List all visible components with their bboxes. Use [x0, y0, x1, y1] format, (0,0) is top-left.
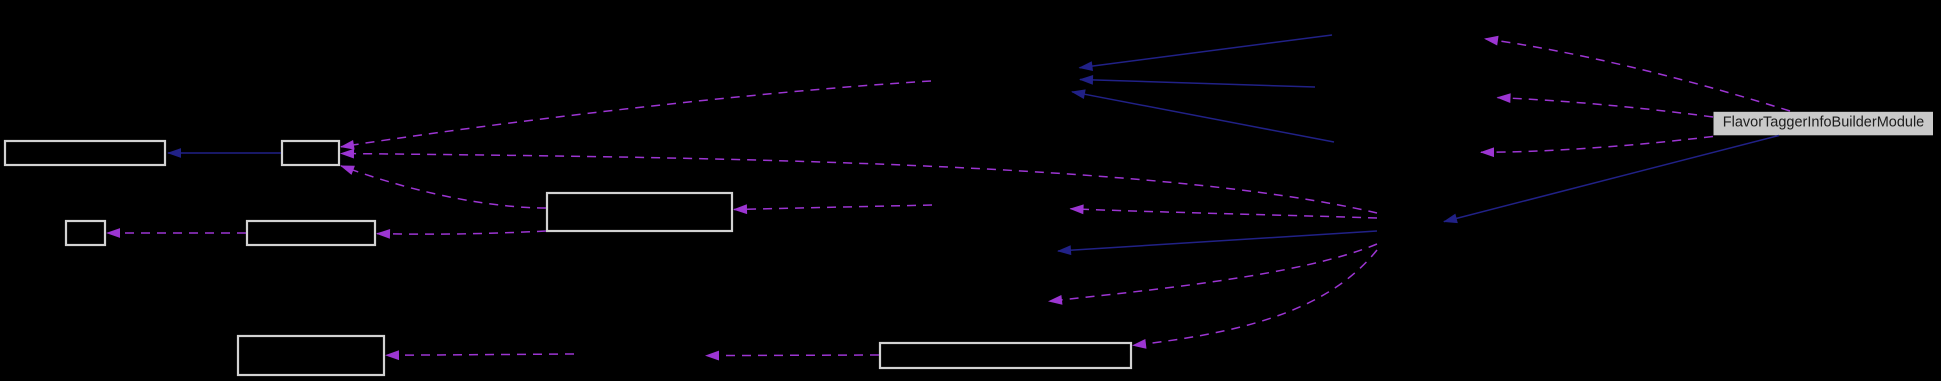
node box B (small box)	[282, 141, 339, 165]
edge C->B (dashed purple usage arrow)	[341, 166, 546, 208]
svg-text:FlavorTaggerInfoBuilderModule: FlavorTaggerInfoBuilderModule	[1723, 115, 1925, 131]
edge M->N4 (dashed purple usage arrow to invisible node)	[1049, 244, 1377, 301]
edge X1->B (dashed purple usage arrow)	[341, 81, 931, 147]
edge B->A (solid blue inheritance arrow)	[168, 152, 281, 154]
edge H->R3 (dashed purple usage arrow to invisible node)	[1481, 137, 1713, 153]
node box E	[247, 221, 375, 245]
edge M->G (dashed purple usage arrow)	[1133, 250, 1377, 345]
edge R2->X1 (solid blue inheritance arrow)	[1080, 80, 1315, 88]
edge M->N2 (dashed purple usage arrow between invisible nodes)	[1071, 209, 1378, 218]
node box G (bottom-middle wide box)	[880, 343, 1131, 368]
node box A (top-left wide box)	[5, 141, 165, 165]
edge E->D (dashed purple usage arrow)	[107, 232, 246, 234]
node FlavorTaggerInfoBuilderModule (highlighted, grey)	[1714, 112, 1934, 136]
edge H->R1 (dashed purple usage arrow to invisible node)	[1485, 39, 1790, 111]
edge N2->C (dashed purple usage arrow from invisible node)	[734, 205, 932, 210]
edge R1->X1 (solid blue inheritance arrow)	[1080, 35, 1333, 68]
edge H->M (solid blue inheritance arrow to invisible Module node)	[1444, 136, 1779, 222]
edge C->E (dashed purple usage arrow)	[377, 231, 546, 234]
edge H->R2 (dashed purple usage arrow to invisible node)	[1498, 98, 1714, 117]
edge M->B (long dashed purple usage arrow)	[341, 154, 1377, 214]
edge G->N6 (dashed purple usage arrow to invisible node)	[706, 354, 879, 357]
edge R3->X1 (solid blue inheritance arrow)	[1072, 92, 1334, 142]
edge M->N3 (solid blue inheritance arrow, invisible nodes)	[1058, 231, 1377, 251]
node box D (tiny box)	[66, 221, 105, 245]
edge N6->F (dashed purple usage arrow from invisible node)	[386, 354, 574, 355]
node box C (two-line box, middle)	[547, 193, 732, 231]
node box F (two-line box, bottom-left)	[238, 336, 384, 375]
